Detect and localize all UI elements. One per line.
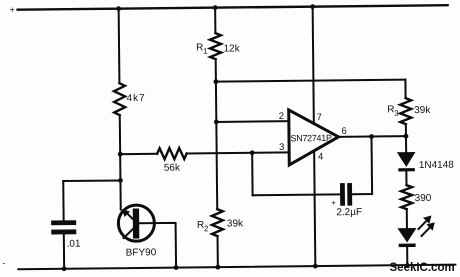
svg-text:3: 3 — [394, 109, 399, 118]
node junction pin2 tap — [214, 120, 219, 125]
node junction R1 bottom to R3 line — [213, 79, 218, 84]
capacitor C1 .01 bottom plate — [51, 229, 76, 234]
wire C1 bottom lead — [63, 234, 65, 268]
capacitor C2 right plate — [347, 183, 352, 206]
wire R1 bottom through pin2 node down to R2 — [216, 59, 218, 209]
wire feedback vertical at pin3 — [251, 153, 253, 195]
wire R2 bottom lead — [217, 236, 219, 267]
wire output node to diode D1 — [405, 136, 407, 152]
node junction R2 to ground rail — [215, 265, 220, 270]
node junction output to R3/diode column — [404, 134, 409, 139]
node junction cap C1 branch — [118, 178, 123, 183]
svg-text:+: + — [10, 5, 15, 15]
svg-text:1: 1 — [203, 47, 208, 56]
svg-text:39k: 39k — [227, 218, 244, 229]
wire top supply rail — [18, 5, 448, 10]
svg-text:.01: .01 — [67, 239, 81, 250]
capacitor C1 .01 top plate — [51, 220, 76, 225]
svg-text:39k: 39k — [414, 105, 431, 116]
svg-text:12k: 12k — [224, 43, 241, 54]
wire R3 top corner — [404, 80, 406, 98]
node junction top rail at pin7 — [310, 4, 315, 9]
node junction base lead to ground rail — [174, 265, 179, 270]
svg-text:6: 6 — [341, 126, 346, 137]
wire 390 to LED — [406, 209, 408, 228]
svg-text:+: + — [331, 198, 336, 207]
transistor Q1 emitter arrow shaft — [125, 212, 133, 220]
svg-text:BFY90: BFY90 — [126, 247, 157, 258]
node junction pin4 to ground rail — [313, 264, 318, 269]
node junction top rail at R1 — [213, 5, 218, 10]
resistor 56k — [157, 148, 187, 159]
diode D1 1N4148 triangle — [397, 152, 416, 167]
wire 4k7 bottom to transistor — [119, 115, 122, 209]
transistor Q1 emitter arrowhead — [122, 209, 130, 217]
node junction feedback tap pin3 — [250, 150, 255, 155]
wire R3 bottom to output node — [405, 124, 407, 136]
svg-text:4k7: 4k7 — [127, 93, 146, 104]
wire pin2 line — [216, 120, 288, 123]
LED D2 emission arrow lower — [421, 227, 430, 236]
resistor R3 39k — [400, 98, 411, 124]
svg-text:56k: 56k — [164, 163, 181, 174]
node junction LED to ground rail — [405, 263, 409, 267]
svg-text:2: 2 — [204, 224, 209, 233]
wire D1 to 390 — [405, 171, 407, 185]
svg-text:3: 3 — [279, 142, 284, 153]
wire feedback row to pin3 column — [253, 193, 340, 196]
wire 56k row left segment — [120, 153, 157, 155]
svg-text:4: 4 — [318, 152, 323, 163]
transistor Q1 collector diagonal — [123, 229, 133, 239]
wire LED to ground rail — [406, 247, 408, 265]
wire output row pin6 — [338, 135, 405, 138]
transistor Q1 base bar — [133, 208, 140, 238]
wire 4k7 top lead — [118, 9, 121, 83]
svg-text:390: 390 — [415, 193, 432, 204]
svg-text:7: 7 — [317, 112, 322, 123]
resistor 390 — [401, 185, 412, 209]
wire pin 7 supply lead — [313, 7, 314, 123]
node junction C1 to ground rail — [62, 266, 67, 271]
wire C1 branch horizontal — [63, 179, 120, 182]
wire pin 4 ground lead — [314, 151, 315, 266]
transistor Q1 BFY90 circle — [118, 205, 154, 241]
node junction output to C2 branch — [369, 134, 374, 139]
LED D2 emission arrow upper — [418, 220, 427, 229]
resistor R1 12k — [210, 33, 221, 59]
svg-text:2.2µF: 2.2µF — [336, 207, 362, 218]
node junction top rail at 4k7 — [116, 6, 121, 11]
svg-text:-: - — [2, 258, 5, 268]
LED D2 cathode bar — [399, 244, 416, 248]
wire C1 top lead — [62, 181, 64, 220]
wire C2 branch down — [351, 137, 372, 195]
diode D1 cathode bar — [398, 168, 415, 171]
resistor R2 39k — [212, 209, 223, 236]
op-amp U1 SN72741P triangle — [289, 109, 339, 165]
svg-text:SN72741P: SN72741P — [290, 133, 332, 143]
node junction 56k tap — [118, 152, 123, 157]
svg-text:1N4148: 1N4148 — [419, 160, 455, 171]
capacitor C2 left plate — [340, 183, 345, 206]
wire 56k to pin 3 — [187, 152, 289, 153]
wire base lead right — [139, 223, 176, 268]
wire bottom ground rail — [18, 265, 455, 270]
svg-text:SeekIC.com: SeekIC.com — [390, 262, 455, 274]
wire divider line to R3 top — [216, 80, 405, 82]
resistor 4k7 — [114, 83, 125, 115]
wire R1 top lead — [214, 8, 216, 33]
LED D2 triangle — [397, 228, 416, 242]
svg-text:2: 2 — [279, 111, 284, 122]
